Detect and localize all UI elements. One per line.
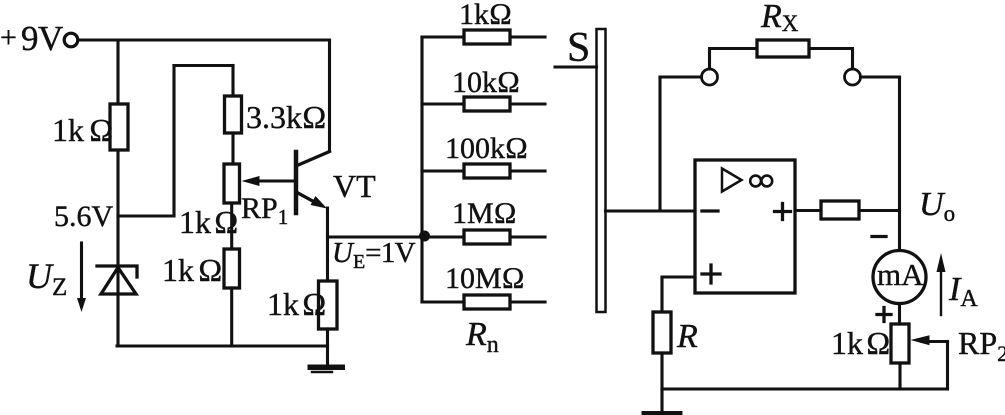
wire bank bus: [420, 37, 423, 302]
wire zener node branch: [118, 214, 174, 217]
RP1 wiper arrow: [242, 176, 297, 186]
svg-text:1kΩ: 1kΩ: [267, 286, 327, 322]
resistor Rn4 1M: [422, 230, 545, 244]
resistor R4 emitter 1k body: [319, 281, 338, 329]
resistor Rn3 100k: [422, 164, 545, 178]
arrow IA: [937, 253, 946, 315]
wire Rx branch up: [658, 77, 661, 211]
potentiometer RP2 body: [891, 324, 909, 363]
RP2 wiper arrow: [911, 335, 948, 345]
ground (emitter): [308, 365, 346, 373]
svg-text:RX: RX: [760, 0, 799, 36]
svg-text:100kΩ: 100kΩ: [445, 132, 528, 165]
wire emitter node to bank: [328, 235, 423, 238]
svg-text:Uo: Uo: [919, 186, 955, 226]
wire RP2 bottom: [898, 363, 901, 389]
wire R3 to bottom rail: [230, 288, 233, 346]
wire emitter down: [326, 208, 329, 281]
wire R1 bottom to bottom rail: [116, 150, 119, 346]
svg-text:5.6V: 5.6V: [54, 200, 114, 233]
wire Rx to right terminal: [809, 49, 853, 70]
svg-text:10MΩ: 10MΩ: [445, 262, 525, 295]
wire RP2 wiper down: [946, 342, 949, 390]
op-amp plus input mark: [702, 265, 720, 283]
wire loop left vertical: [172, 66, 175, 217]
node UE junction dot: [419, 231, 430, 242]
wire S output to op-amp: [606, 209, 696, 212]
wire S contact: [555, 65, 597, 68]
svg-text:RP1: RP1: [241, 192, 288, 229]
terminal left of Rx: [702, 69, 718, 85]
svg-text:1kΩ: 1kΩ: [162, 252, 223, 288]
wire to left terminal: [660, 75, 702, 78]
label minus above meter: [872, 235, 886, 238]
resistor Rn5 10M: [422, 295, 545, 309]
svg-text:RP2: RP2: [958, 325, 1005, 366]
resistor Rn2 10k: [422, 97, 545, 111]
op-amp gain triangle: [722, 169, 742, 192]
svg-text:1MΩ: 1MΩ: [452, 197, 517, 230]
svg-text:1kΩ: 1kΩ: [179, 204, 239, 240]
label plus below meter: [877, 308, 891, 322]
wire R2 to RP1: [231, 133, 234, 164]
svg-text:S: S: [567, 25, 590, 71]
wire R4 to ground: [326, 329, 329, 366]
op-amp output plus mark: [775, 204, 791, 220]
op-amp U1 box: [695, 160, 795, 293]
svg-text:Rn: Rn: [465, 316, 499, 358]
resistor Rx body: [757, 40, 809, 57]
transistor VT: [296, 152, 330, 214]
meter mA: [873, 251, 926, 304]
svg-text:1kΩ: 1kΩ: [831, 325, 891, 361]
wire op-amp output: [795, 209, 821, 212]
wire bottom-left rail: [117, 344, 328, 347]
svg-text:UZ: UZ: [26, 256, 67, 301]
terminal +9V: [64, 33, 78, 47]
svg-text:VT: VT: [333, 168, 376, 204]
svg-text:1kΩ: 1kΩ: [52, 112, 114, 148]
op-amp infinity: [750, 176, 772, 187]
op-amp minus input mark: [702, 209, 718, 212]
resistor R1 1k body: [110, 104, 128, 150]
svg-text:R: R: [676, 318, 698, 355]
ground (op-amp): [642, 389, 683, 415]
wire left terminal to Rx: [710, 49, 758, 70]
switch S bar: [597, 29, 606, 312]
svg-text:+: +: [0, 21, 17, 54]
wire bottom-right rail: [662, 387, 948, 390]
wire RP1 to R3: [230, 203, 233, 249]
wire R6 to output node: [859, 209, 900, 212]
arrow UZ direction: [77, 243, 86, 312]
svg-text:3.3kΩ: 3.3kΩ: [246, 99, 327, 135]
wire left drop to R1: [116, 40, 119, 104]
wire loop right drop: [231, 66, 234, 97]
svg-text:10kΩ: 10kΩ: [452, 66, 520, 99]
wire collector drop: [328, 40, 331, 151]
wire R5 to rail: [660, 353, 663, 389]
svg-text:UE=1V: UE=1V: [332, 237, 416, 273]
zener diode VD 5.6V: [97, 266, 137, 294]
svg-text:mA: mA: [877, 257, 924, 292]
wire plus input: [662, 277, 695, 312]
resistor R6 output body: [821, 201, 859, 219]
svg-text:IA: IA: [948, 271, 978, 312]
potentiometer RP1 body: [224, 164, 240, 203]
wire top rail: [80, 38, 330, 41]
wire output column down: [898, 77, 901, 251]
wire loop top: [174, 64, 233, 67]
resistor R3 1k body: [224, 249, 240, 288]
resistor R5 body: [653, 312, 671, 353]
svg-text:9V: 9V: [21, 19, 63, 58]
resistor R2 3.3k body: [225, 96, 242, 133]
svg-text:1kΩ: 1kΩ: [459, 0, 512, 31]
wire right terminal to output column: [861, 75, 900, 78]
terminal right of Rx: [845, 69, 861, 85]
wire meter to RP2: [898, 304, 901, 325]
resistor Rn1 1k: [422, 30, 545, 44]
